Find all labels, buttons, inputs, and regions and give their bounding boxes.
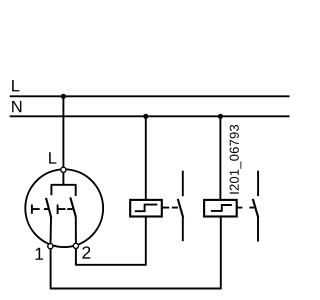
- relay K2 coil box: [204, 200, 237, 217]
- wire top bar of switch: [51, 184, 77, 186]
- wire middle run to relay K1: [76, 264, 146, 266]
- wire terminal 1 down: [50, 248, 52, 290]
- relay K2 coil step symbol: [211, 205, 232, 211]
- label 2: [82, 246, 90, 258]
- contact 1 bottom lead: [50, 218, 53, 244]
- terminal L of switch: [61, 167, 66, 172]
- relay K1 linkage dashes: [163, 207, 178, 209]
- label L (switch terminal): [49, 152, 56, 163]
- contact 2 bottom lead: [75, 217, 77, 244]
- wire N bus down to relay K1 coil: [145, 116, 147, 199]
- node junction on N (K2): [218, 114, 223, 119]
- wire feed inside switch: [62, 173, 64, 186]
- relay K2 contact blade: [253, 199, 258, 218]
- wire N bus down to relay K2 coil: [219, 116, 221, 199]
- node junction on N (K1): [143, 114, 148, 119]
- line N bus: [10, 115, 290, 117]
- relay K1 coil step symbol: [135, 205, 158, 212]
- relay K1 contact top lead: [182, 171, 184, 197]
- switch S1 enclosure circle: [25, 169, 103, 247]
- relay K2 contact top lead: [257, 171, 259, 197]
- wire riser to relay K1 coil: [145, 217, 147, 265]
- wire terminal 2 down: [75, 248, 77, 266]
- contact 2 blade: [70, 197, 76, 216]
- pushbutton actuator 2: [58, 205, 73, 215]
- terminal 2 of switch: [73, 243, 78, 248]
- relay K2 contact bottom lead: [257, 217, 259, 241]
- pushbutton actuator 1: [32, 205, 49, 214]
- terminal 1 of switch: [48, 244, 53, 249]
- label N (bus): [12, 101, 21, 112]
- node junction on L: [61, 94, 66, 99]
- relay K2 linkage dashes: [238, 207, 255, 209]
- relay K1 contact bottom lead: [182, 217, 184, 241]
- relay K1 coil box: [130, 200, 162, 217]
- wire riser to relay K2 coil: [220, 217, 222, 289]
- label 1: [36, 248, 44, 260]
- contact 2 fixed lead: [75, 185, 77, 196]
- label I201_06793: [230, 125, 242, 194]
- label L (bus): [12, 80, 19, 91]
- wire from L bus down to switch terminal: [62, 96, 64, 167]
- line L bus: [10, 95, 290, 97]
- wire bottom run to relay K2: [51, 288, 221, 290]
- contact 1 blade: [46, 198, 51, 218]
- relay K1 contact blade: [178, 199, 183, 218]
- contact 1 fixed lead: [50, 185, 52, 195]
